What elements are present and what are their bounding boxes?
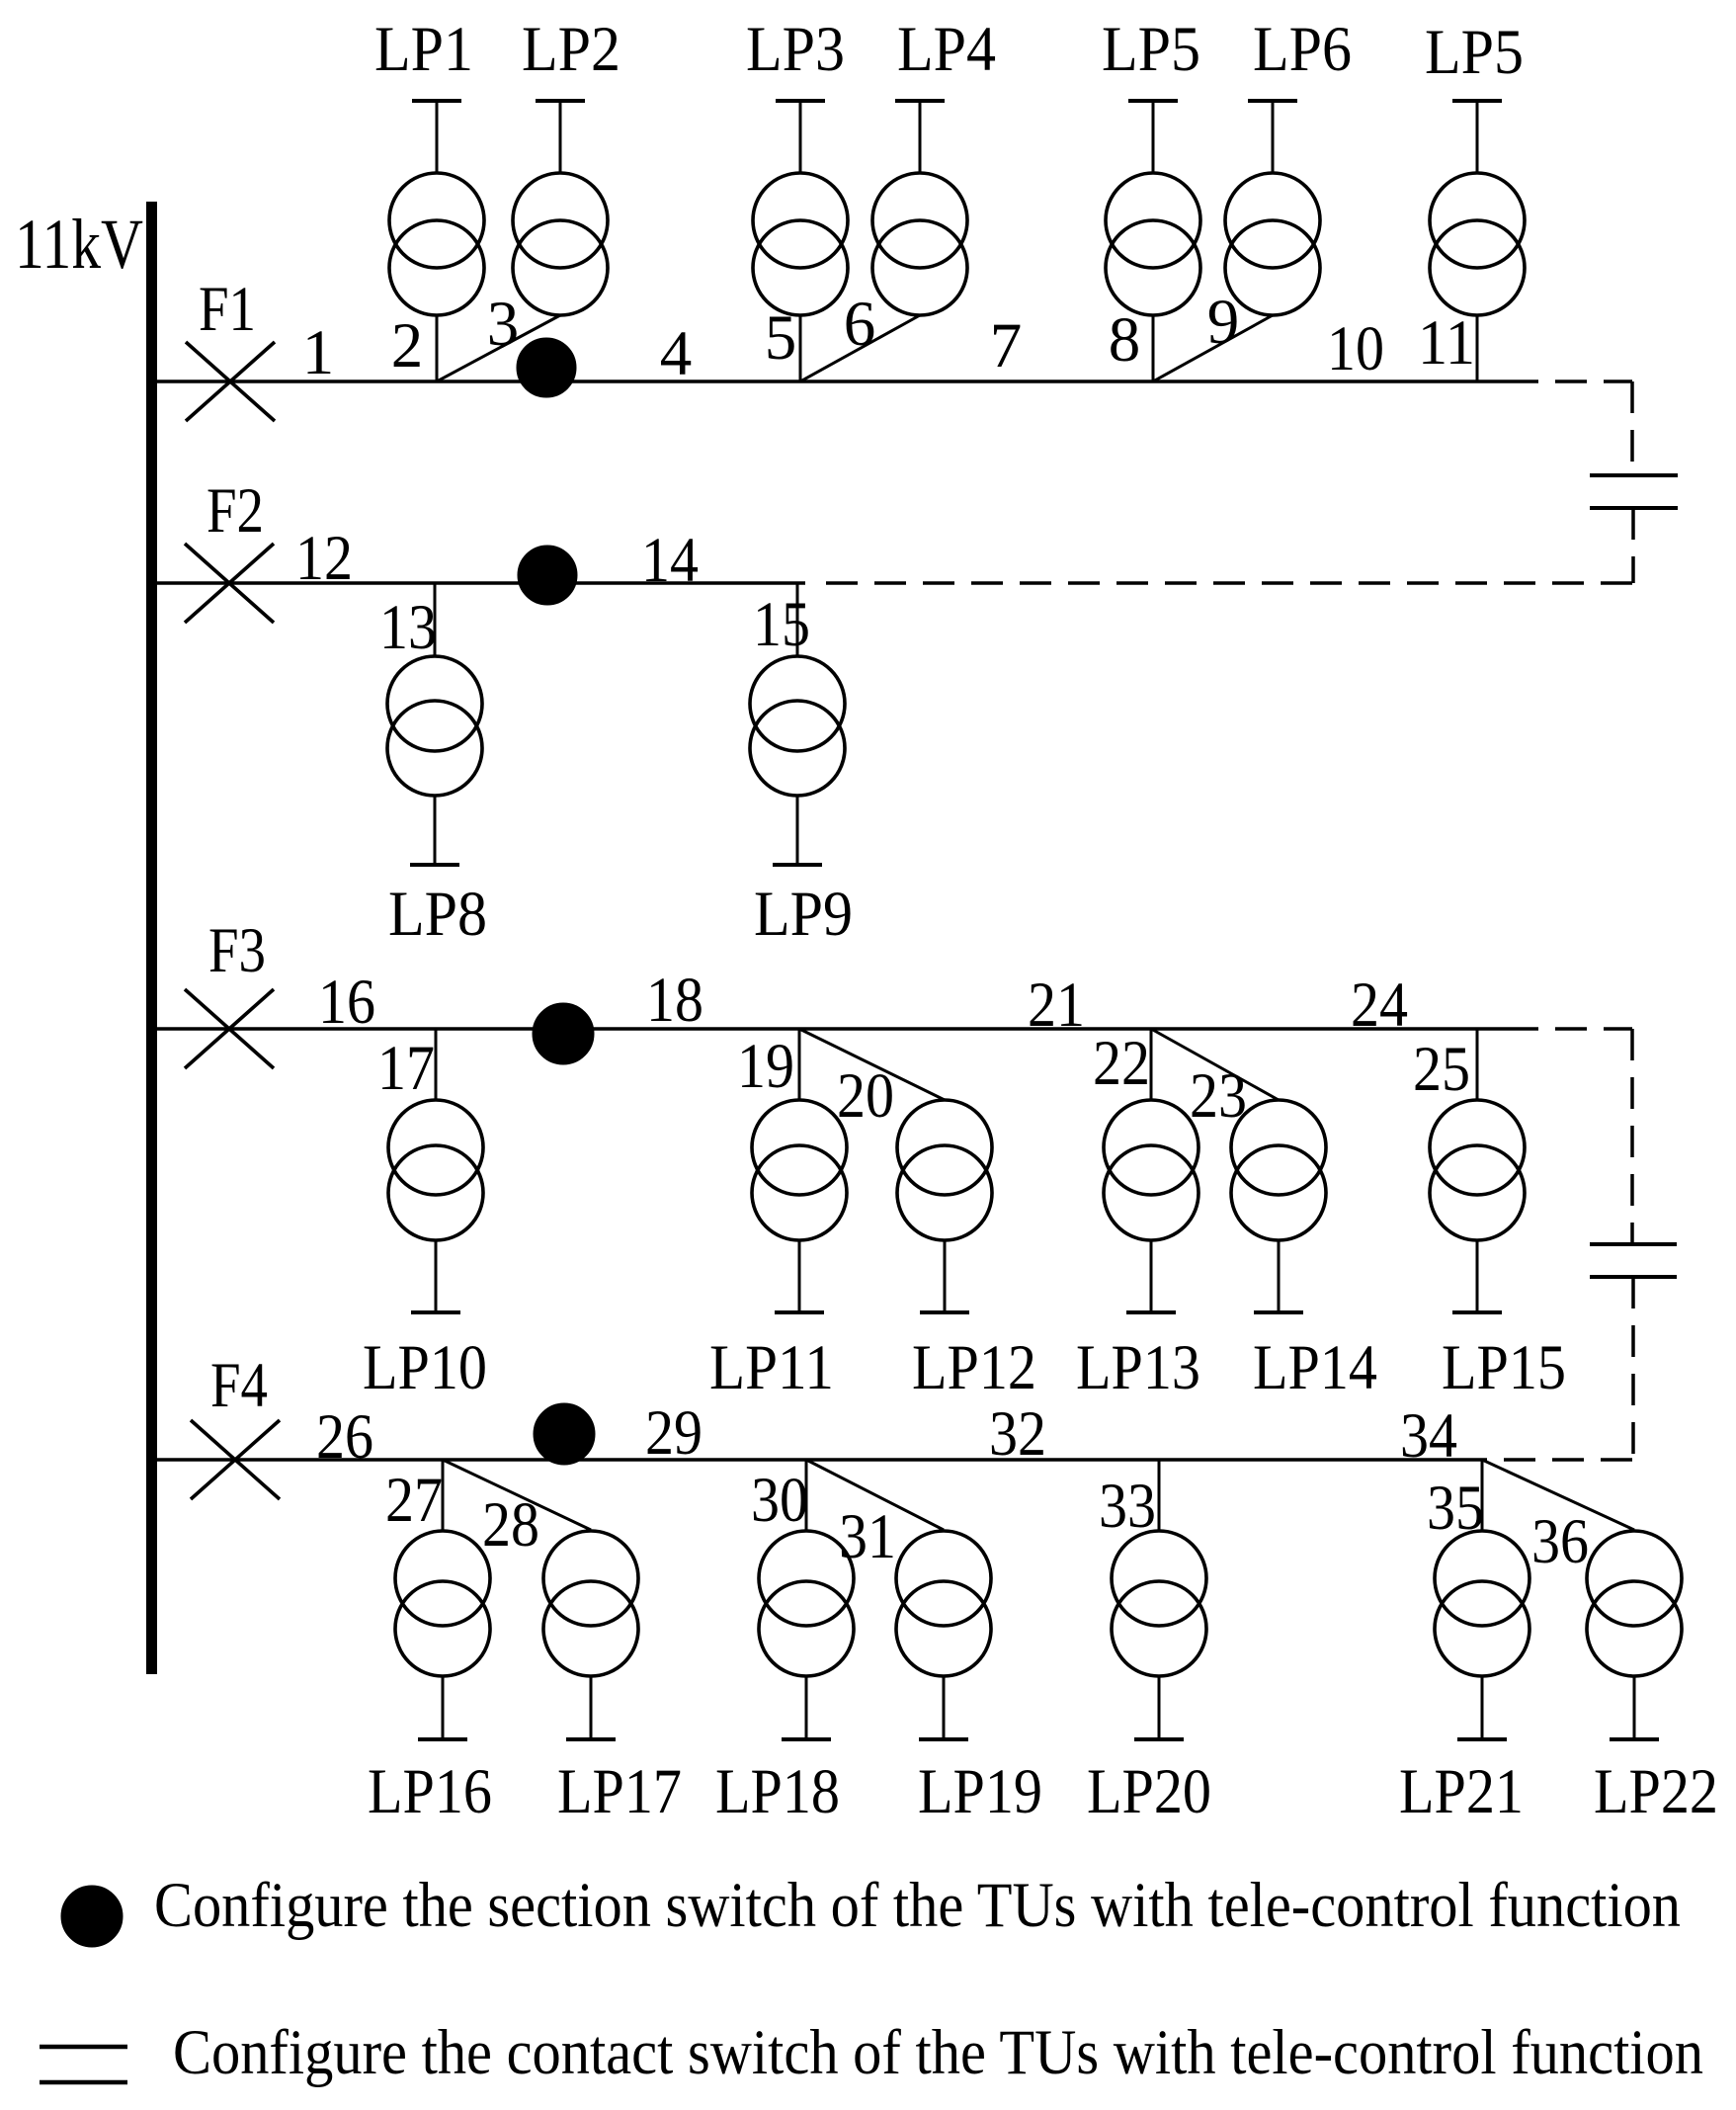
svg-text:LP20: LP20 [1087, 1756, 1211, 1827]
svg-text:30: 30 [751, 1465, 808, 1536]
svg-text:5: 5 [765, 302, 797, 374]
svg-text:18: 18 [646, 965, 703, 1036]
svg-text:LP6: LP6 [1253, 14, 1352, 85]
svg-text:33: 33 [1099, 1471, 1156, 1542]
svg-text:1: 1 [302, 317, 335, 388]
svg-text:16: 16 [318, 967, 375, 1038]
svg-text:7: 7 [990, 310, 1023, 381]
svg-text:LP3: LP3 [746, 14, 845, 85]
svg-text:13: 13 [379, 592, 437, 663]
svg-text:Configure the contact switch o: Configure the contact switch of the TUs … [173, 2017, 1703, 2088]
svg-text:Configure the section switch o: Configure the section switch of the TUs … [154, 1870, 1681, 1941]
svg-text:26: 26 [316, 1401, 373, 1473]
svg-text:31: 31 [839, 1501, 896, 1572]
svg-text:8: 8 [1109, 304, 1141, 376]
svg-text:LP4: LP4 [897, 14, 996, 85]
svg-text:10: 10 [1327, 313, 1384, 384]
svg-text:6: 6 [844, 289, 876, 360]
svg-text:11: 11 [1418, 307, 1475, 379]
svg-text:29: 29 [645, 1397, 703, 1469]
svg-text:20: 20 [837, 1060, 894, 1132]
svg-text:LP17: LP17 [557, 1756, 682, 1827]
svg-text:12: 12 [295, 523, 353, 594]
svg-text:17: 17 [377, 1033, 435, 1104]
svg-text:2: 2 [391, 310, 424, 381]
svg-text:19: 19 [737, 1031, 794, 1102]
svg-text:LP1: LP1 [374, 14, 473, 85]
svg-text:9: 9 [1207, 287, 1240, 358]
svg-text:F3: F3 [208, 915, 266, 986]
svg-text:36: 36 [1531, 1506, 1589, 1577]
svg-text:F4: F4 [210, 1350, 268, 1421]
svg-text:LP5: LP5 [1102, 14, 1200, 85]
svg-text:F1: F1 [199, 274, 256, 345]
svg-text:LP2: LP2 [522, 14, 620, 85]
svg-text:LP18: LP18 [715, 1756, 840, 1827]
svg-text:3: 3 [487, 289, 520, 360]
svg-text:23: 23 [1190, 1060, 1247, 1132]
svg-text:34: 34 [1400, 1400, 1457, 1472]
svg-text:11kV: 11kV [15, 205, 143, 284]
svg-text:LP21: LP21 [1399, 1756, 1524, 1827]
svg-text:LP8: LP8 [388, 879, 487, 950]
svg-text:14: 14 [641, 525, 699, 596]
svg-text:4: 4 [660, 318, 693, 389]
svg-text:22: 22 [1093, 1028, 1150, 1099]
svg-text:LP12: LP12 [912, 1332, 1036, 1403]
svg-text:F2: F2 [207, 475, 264, 547]
svg-text:21: 21 [1028, 970, 1085, 1041]
svg-text:LP22: LP22 [1594, 1756, 1718, 1827]
svg-text:28: 28 [482, 1489, 539, 1561]
svg-text:35: 35 [1427, 1473, 1484, 1544]
svg-text:15: 15 [753, 589, 810, 660]
svg-text:LP9: LP9 [754, 879, 853, 950]
svg-text:32: 32 [989, 1398, 1046, 1470]
svg-text:27: 27 [385, 1465, 443, 1536]
svg-text:LP16: LP16 [368, 1756, 492, 1827]
svg-text:LP14: LP14 [1253, 1332, 1377, 1403]
svg-text:LP10: LP10 [363, 1332, 487, 1403]
svg-text:25: 25 [1413, 1034, 1470, 1105]
svg-text:24: 24 [1351, 970, 1408, 1041]
svg-text:LP19: LP19 [918, 1756, 1042, 1827]
svg-text:LP13: LP13 [1076, 1332, 1200, 1403]
svg-text:LP5: LP5 [1425, 17, 1524, 88]
svg-text:LP11: LP11 [709, 1332, 834, 1403]
svg-text:LP15: LP15 [1442, 1332, 1566, 1403]
